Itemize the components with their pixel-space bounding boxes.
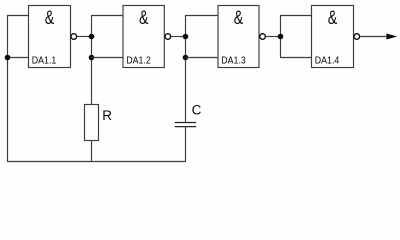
junction: left line to DA1.1 input 2 [5,55,11,61]
wire: DA1.3 output to node D [266,36,281,38]
NAND gate DA1.3 box [218,6,259,68]
svg-text:DA1.2: DA1.2 [126,56,151,67]
NAND gate DA1.4 box [312,6,354,68]
output arrowhead [386,34,397,40]
svg-text:&: & [234,8,244,29]
svg-text:DA1.4: DA1.4 [315,56,340,67]
wire: DA1.2 output to node C [171,36,186,38]
capacitor C bottom plate [175,126,196,128]
svg-text:&: & [139,8,149,29]
svg-text:&: & [45,8,55,29]
svg-text:DA1.1: DA1.1 [32,56,57,67]
wire: node D to DA1.4 input 1 [280,15,312,17]
junction: node D at output row [278,34,284,40]
resistor R body [85,105,99,141]
svg-text:C: C [192,102,202,117]
wire: node D vertical [280,16,282,58]
junction: node C at input-2 row [183,55,189,61]
inverter bubble of DA1.2 output [165,34,171,40]
junction: node C at output row [183,34,189,40]
wire: resistor bottom lead [91,141,93,162]
NAND gate DA1.2 box [123,6,164,68]
wire: DA1.4 output to arrow [360,36,388,38]
junction: node B at output row [89,34,95,40]
wire: bottom rail [7,161,186,163]
inverter bubble of DA1.3 output [260,34,266,40]
svg-text:&: & [328,8,338,29]
wire: DA1.1 output to node B [77,36,92,38]
svg-text:DA1.3: DA1.3 [221,56,246,67]
inverter bubble of DA1.1 output [71,34,77,40]
wire: left feedback vertical line (node A) [7,16,9,162]
inverter bubble of DA1.4 output [354,34,360,40]
wire: DA1.1 input 1 horizontal [7,15,29,17]
wire: node B to DA1.2 input 1 [91,15,123,17]
NAND gate DA1.1 box [29,6,71,68]
junction: node B at input-2 row [89,55,95,61]
wire: DA1.1 input 2 horizontal [8,57,29,59]
capacitor C top plate [175,122,196,124]
wire: capacitor bottom lead [185,127,187,162]
wire: node C vertical (down to capacitor top plate) [185,16,187,123]
wire: node D to DA1.4 input 2 [280,57,312,59]
wire: node C to DA1.3 input 1 [185,15,218,17]
wire: node B vertical (output junction down to resistor) [91,16,93,105]
svg-text:R: R [102,108,112,123]
wire: node C to DA1.3 input 2 [186,57,219,59]
wire: node B to DA1.2 input 2 [92,57,124,59]
